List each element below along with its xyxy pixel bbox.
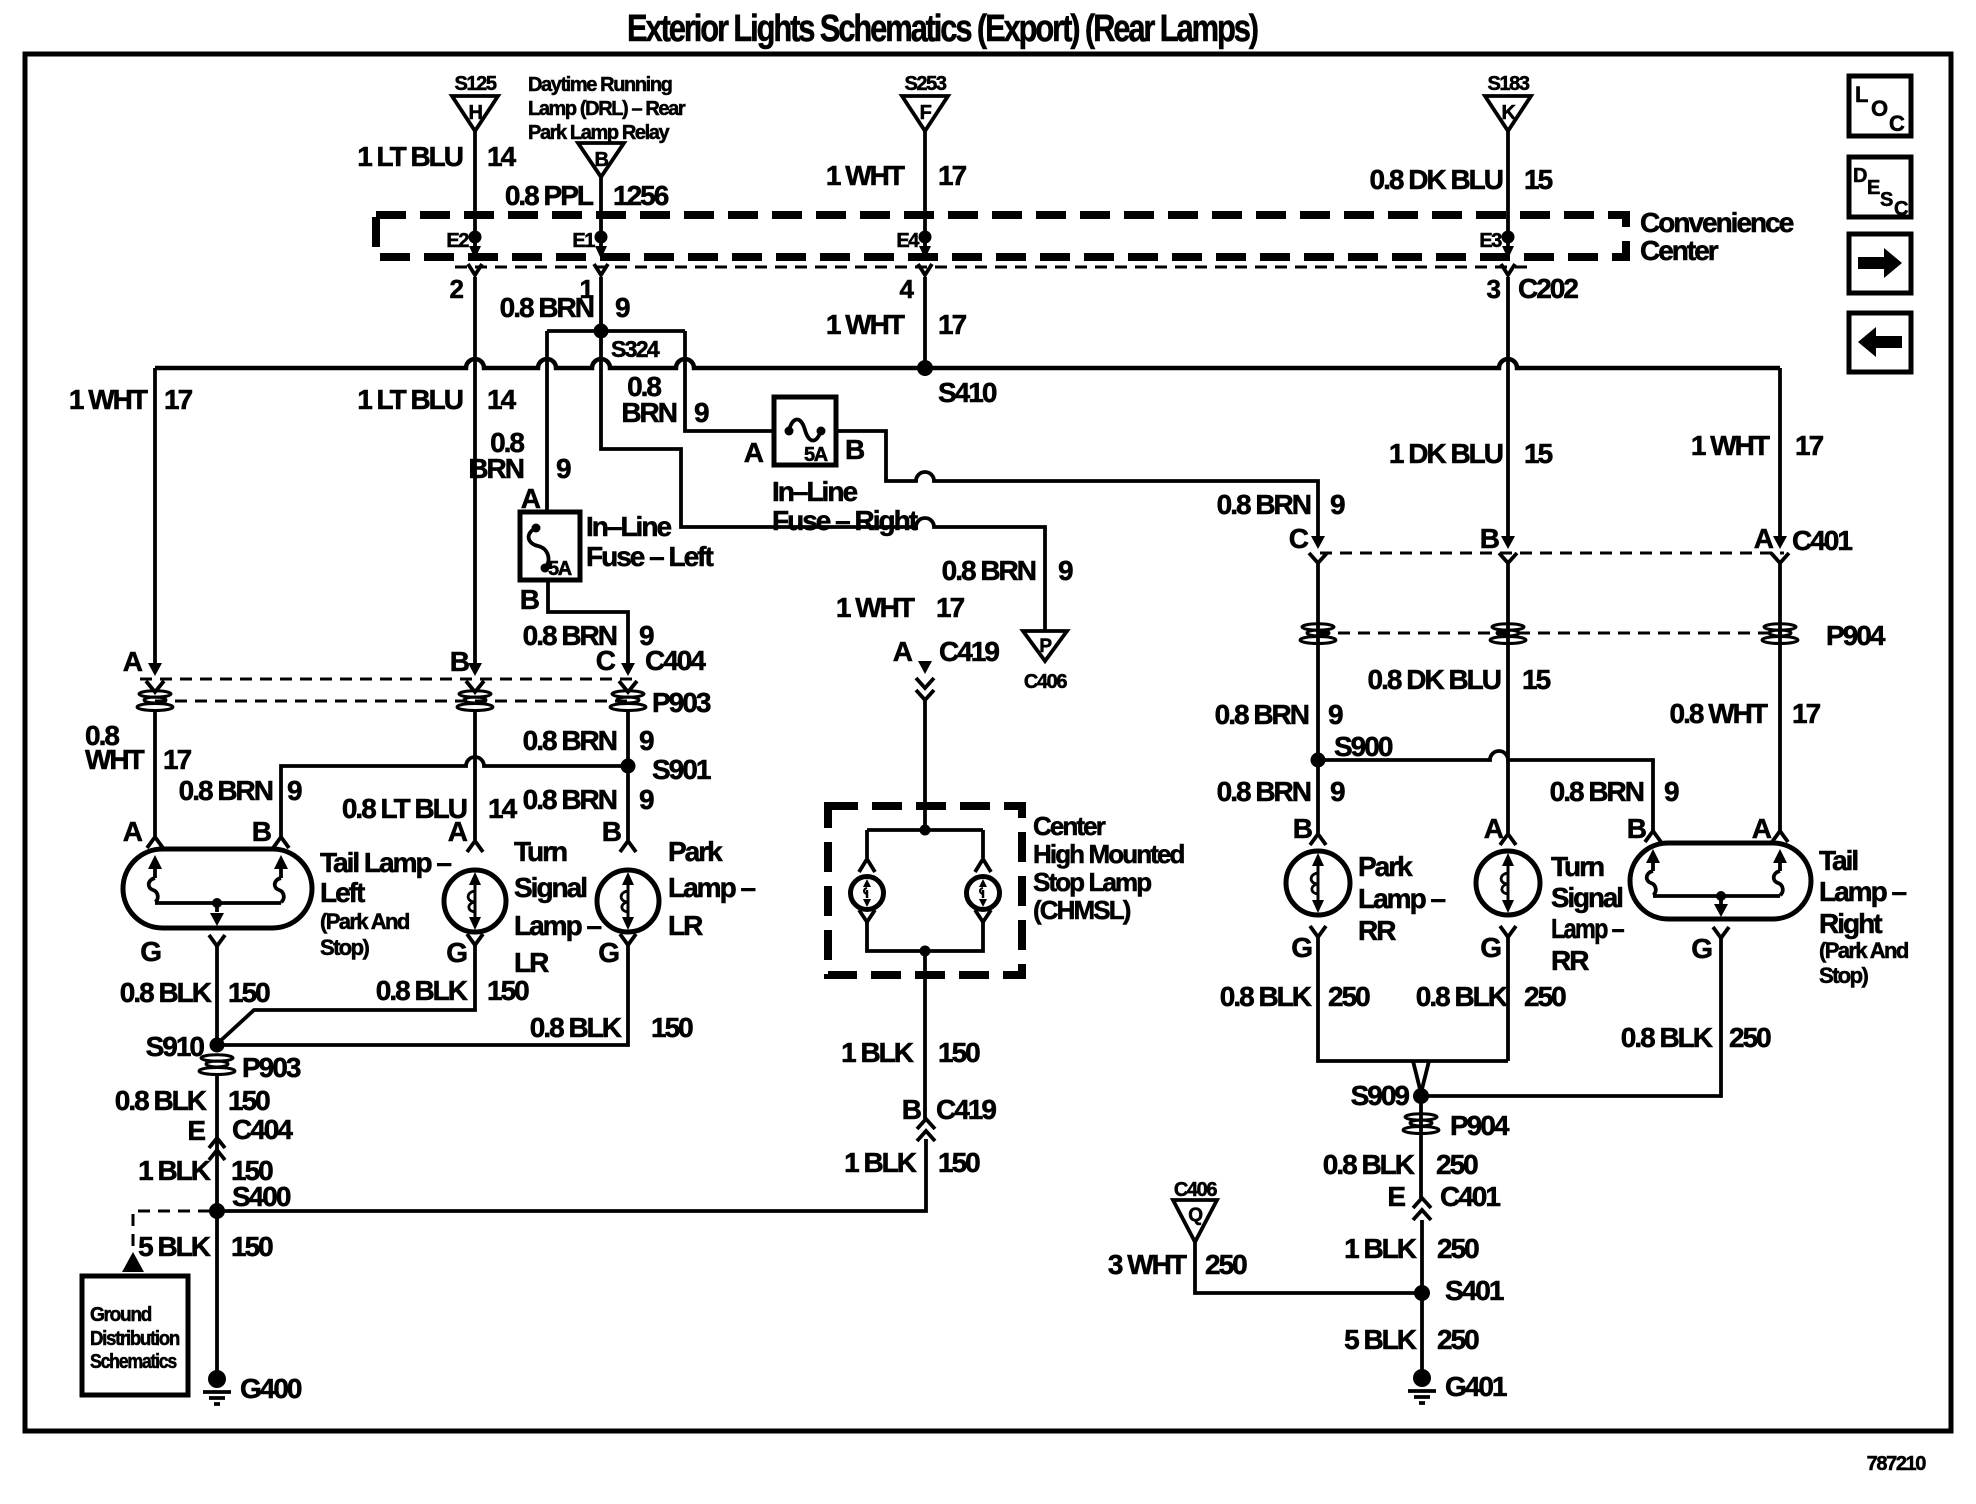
park lamp RR bulb xyxy=(1286,851,1350,915)
svg-text:C: C xyxy=(1289,523,1309,554)
grommet P903 dashed line xyxy=(155,700,628,703)
ground G400 xyxy=(203,1370,302,1404)
splice S900 xyxy=(1311,753,1326,768)
svg-text:0.8 BRN: 0.8 BRN xyxy=(523,725,617,756)
svg-text:WHT: WHT xyxy=(85,744,145,775)
svg-text:Signal: Signal xyxy=(514,872,586,903)
svg-text:3: 3 xyxy=(1486,274,1500,304)
grommet P904 C xyxy=(1300,624,1336,644)
wire bus left branch to C404 A xyxy=(153,368,157,668)
wire S253 to E4 xyxy=(923,131,927,237)
ground G401 xyxy=(1408,1369,1507,1403)
svg-text:1256: 1256 xyxy=(613,180,669,211)
wire C401 B down xyxy=(1506,563,1510,833)
wire pin4 to S410 xyxy=(923,277,927,368)
svg-text:S410: S410 xyxy=(938,377,997,408)
grommet P904 B xyxy=(1490,624,1526,644)
svg-text:9: 9 xyxy=(1330,776,1345,807)
svg-text:15: 15 xyxy=(1522,664,1551,695)
svg-text:Fuse – Right: Fuse – Right xyxy=(772,505,918,536)
svg-text:0.8 WHT: 0.8 WHT xyxy=(1670,698,1768,729)
svg-text:9: 9 xyxy=(694,397,709,428)
svg-text:G: G xyxy=(1691,933,1712,964)
svg-text:High Mounted: High Mounted xyxy=(1033,839,1185,869)
svg-text:17: 17 xyxy=(1792,698,1821,729)
svg-text:150: 150 xyxy=(938,1037,980,1068)
splice S901 xyxy=(621,759,636,774)
svg-text:250: 250 xyxy=(1729,1022,1771,1053)
svg-text:9: 9 xyxy=(639,784,654,815)
sidebar DESC box xyxy=(1849,157,1911,220)
connector C404 dashed line xyxy=(140,678,637,681)
svg-text:B: B xyxy=(520,584,539,615)
triangle connector C406 Q xyxy=(1173,1179,1217,1242)
svg-text:1 BLK: 1 BLK xyxy=(138,1155,211,1186)
svg-text:G: G xyxy=(1480,932,1501,963)
svg-text:0.8 BRN: 0.8 BRN xyxy=(179,775,273,806)
svg-text:G: G xyxy=(446,937,467,968)
svg-text:Turn: Turn xyxy=(1551,851,1604,882)
svg-text:1 LT BLU: 1 LT BLU xyxy=(357,141,463,172)
wire S901 to tail left B xyxy=(281,757,628,836)
svg-text:S253: S253 xyxy=(904,73,946,95)
svg-text:150: 150 xyxy=(938,1147,980,1178)
wire C401 E to S401 xyxy=(1420,1220,1424,1293)
svg-text:O: O xyxy=(1871,96,1888,121)
svg-text:0.8 BLK: 0.8 BLK xyxy=(530,1012,622,1043)
svg-text:1 WHT: 1 WHT xyxy=(826,160,905,191)
ground reference dashed branch xyxy=(133,1211,210,1254)
svg-text:15: 15 xyxy=(1524,164,1553,195)
svg-text:(Park And: (Park And xyxy=(320,909,409,934)
svg-text:A: A xyxy=(123,816,143,847)
svg-text:Left: Left xyxy=(320,877,365,908)
svg-text:0.8 PPL: 0.8 PPL xyxy=(505,180,594,211)
tail lamp right body xyxy=(1630,843,1811,919)
turn signal lamp RR pin G xyxy=(1500,926,1516,937)
svg-text:C401: C401 xyxy=(1440,1181,1500,1212)
svg-text:B: B xyxy=(1627,813,1646,844)
svg-text:17: 17 xyxy=(163,744,192,775)
wire P904 to C401 E xyxy=(1419,1096,1423,1198)
svg-text:14: 14 xyxy=(488,793,518,824)
svg-text:Tail: Tail xyxy=(1819,845,1857,876)
svg-text:150: 150 xyxy=(487,975,529,1006)
svg-text:RR: RR xyxy=(1358,915,1396,946)
svg-text:250: 250 xyxy=(1328,981,1370,1012)
wire P903 A to tail left A xyxy=(153,710,157,836)
svg-text:LR: LR xyxy=(668,910,703,941)
tail lamp right pin G xyxy=(1713,927,1729,938)
svg-text:0.8 BRN: 0.8 BRN xyxy=(1217,489,1311,520)
wire S324 branch rail xyxy=(547,329,685,333)
svg-text:C401: C401 xyxy=(1792,525,1852,556)
sidebar forward arrow box xyxy=(1849,234,1911,293)
svg-text:B: B xyxy=(602,816,621,847)
svg-text:9: 9 xyxy=(1058,555,1073,586)
svg-text:F: F xyxy=(920,102,932,124)
wire S324 to fuse left A xyxy=(545,331,549,512)
svg-text:Distribution: Distribution xyxy=(90,1328,179,1350)
wire turn RR G to S909 xyxy=(1506,937,1510,1061)
svg-text:C404: C404 xyxy=(645,645,706,676)
svg-text:BRN: BRN xyxy=(468,453,523,484)
off-page connector S125 (triangle H) xyxy=(452,73,498,131)
grommet P903 B xyxy=(457,691,493,711)
svg-text:Tail Lamp –: Tail Lamp – xyxy=(320,847,451,878)
svg-text:0.8 BLK: 0.8 BLK xyxy=(376,975,468,1006)
splice S410 xyxy=(917,360,933,376)
svg-text:0.8 DK BLU: 0.8 DK BLU xyxy=(1368,664,1501,695)
pin 1 of C202 xyxy=(594,264,608,275)
svg-text:Center: Center xyxy=(1033,811,1106,841)
svg-text:S400: S400 xyxy=(232,1181,291,1212)
svg-text:E: E xyxy=(1387,1181,1405,1212)
wire DRL to E1 xyxy=(599,177,603,237)
svg-text:S125: S125 xyxy=(454,73,496,95)
svg-text:1 WHT: 1 WHT xyxy=(69,384,148,415)
pin 4 of C202 xyxy=(918,264,932,275)
svg-text:Stop): Stop) xyxy=(1819,963,1868,988)
svg-text:(CHMSL): (CHMSL) xyxy=(1033,895,1131,925)
svg-text:Lamp (DRL) – Rear: Lamp (DRL) – Rear xyxy=(528,98,686,120)
svg-text:S: S xyxy=(1880,189,1893,211)
svg-text:250: 250 xyxy=(1437,1324,1479,1355)
off-page connector S183 (triangle K) xyxy=(1485,73,1531,131)
pin 3 of C202 xyxy=(1501,264,1515,275)
wire C419 A to CHMSL xyxy=(923,700,927,830)
svg-text:P903: P903 xyxy=(652,687,711,718)
grommet P903 C xyxy=(610,691,646,711)
wire tail right G to S909 xyxy=(1421,938,1721,1096)
convenience center dashed box xyxy=(376,215,1626,257)
svg-text:S900: S900 xyxy=(1334,731,1393,762)
svg-text:RR: RR xyxy=(1551,945,1589,976)
svg-text:250: 250 xyxy=(1437,1233,1479,1264)
grommet P903 (ground) xyxy=(199,1055,235,1075)
svg-text:A: A xyxy=(1752,813,1772,844)
svg-text:G400: G400 xyxy=(240,1373,302,1404)
svg-text:C: C xyxy=(1894,198,1908,220)
svg-text:1 BLK: 1 BLK xyxy=(1344,1233,1417,1264)
wire S183 to E3 xyxy=(1506,131,1510,237)
svg-text:Lamp –: Lamp – xyxy=(1358,883,1445,914)
svg-text:9: 9 xyxy=(615,292,630,323)
svg-text:17: 17 xyxy=(938,160,967,191)
svg-text:150: 150 xyxy=(231,1231,273,1262)
svg-text:5 BLK: 5 BLK xyxy=(1344,1324,1417,1355)
svg-text:Daytime Running: Daytime Running xyxy=(528,74,672,96)
svg-text:D: D xyxy=(1853,165,1867,187)
svg-text:1 DK BLU: 1 DK BLU xyxy=(1389,438,1503,469)
turn signal lamp RR bulb xyxy=(1476,851,1540,915)
svg-text:C202: C202 xyxy=(1518,273,1578,304)
svg-text:5 BLK: 5 BLK xyxy=(138,1231,211,1262)
svg-text:Lamp –: Lamp – xyxy=(1551,913,1624,944)
grommet P904 (ground) xyxy=(1403,1114,1439,1134)
svg-text:C406: C406 xyxy=(1174,1179,1217,1201)
grommet P903 A xyxy=(137,691,173,711)
svg-text:G401: G401 xyxy=(1445,1371,1507,1402)
svg-text:Q: Q xyxy=(1188,1205,1202,1226)
svg-text:LR: LR xyxy=(514,947,549,978)
wire S400 to C419 B xyxy=(217,1139,926,1211)
svg-text:17: 17 xyxy=(938,309,967,340)
svg-text:0.8 BRN: 0.8 BRN xyxy=(1215,699,1309,730)
wire tail left G to S910 xyxy=(215,946,219,1045)
wire S324 to fuse right A xyxy=(685,331,774,431)
svg-text:Park Lamp Relay: Park Lamp Relay xyxy=(528,122,670,144)
wire S125 to E2 xyxy=(473,131,477,237)
svg-text:Ground: Ground xyxy=(90,1304,151,1326)
svg-text:9: 9 xyxy=(1328,699,1343,730)
wire P903 B to turn LR A xyxy=(473,710,477,840)
svg-text:9: 9 xyxy=(639,725,654,756)
svg-text:S909: S909 xyxy=(1351,1080,1410,1111)
svg-text:P904: P904 xyxy=(1450,1110,1510,1141)
svg-text:S183: S183 xyxy=(1487,73,1529,95)
svg-text:0.8 BRN: 0.8 BRN xyxy=(523,784,617,815)
svg-text:Fuse – Left: Fuse – Left xyxy=(586,541,713,572)
svg-text:0.8 BLK: 0.8 BLK xyxy=(1323,1149,1415,1180)
svg-text:C419: C419 xyxy=(939,636,999,667)
wire C401 A down xyxy=(1778,563,1782,833)
svg-text:P903: P903 xyxy=(242,1052,301,1083)
svg-text:B: B xyxy=(594,149,608,171)
svg-text:9: 9 xyxy=(1330,489,1345,520)
svg-text:Park: Park xyxy=(668,836,723,867)
svg-text:Stop Lamp: Stop Lamp xyxy=(1033,867,1151,897)
tail lamp left pin G xyxy=(209,935,225,946)
in-line fuse right xyxy=(744,397,918,536)
wire pin2 to C404 B xyxy=(473,277,477,668)
wire S400 to G400 xyxy=(215,1211,219,1372)
svg-text:1 WHT: 1 WHT xyxy=(836,592,915,623)
svg-text:14: 14 xyxy=(487,141,517,172)
svg-text:250: 250 xyxy=(1524,981,1566,1012)
svg-text:17: 17 xyxy=(1795,430,1824,461)
svg-text:9: 9 xyxy=(1664,776,1679,807)
svg-text:S401: S401 xyxy=(1445,1275,1504,1306)
grommet P904 A xyxy=(1762,624,1798,644)
svg-text:5A: 5A xyxy=(804,444,828,466)
triangle connector C406 P xyxy=(1023,631,1067,693)
svg-text:B: B xyxy=(1480,523,1499,554)
svg-text:Schematics: Schematics xyxy=(90,1351,177,1373)
tail lamp left body xyxy=(123,849,312,928)
connector C202 dashed line xyxy=(455,266,1528,269)
svg-text:E1: E1 xyxy=(572,230,595,252)
wire turn LR G to S910 xyxy=(217,945,475,1044)
svg-text:0.8 BLK: 0.8 BLK xyxy=(115,1085,207,1116)
svg-text:0.8 BRN: 0.8 BRN xyxy=(1550,776,1644,807)
svg-text:0.8 DK BLU: 0.8 DK BLU xyxy=(1370,164,1503,195)
svg-text:0.8 BLK: 0.8 BLK xyxy=(1416,981,1508,1012)
svg-text:0.8 BRN: 0.8 BRN xyxy=(1217,776,1311,807)
svg-text:5A: 5A xyxy=(548,558,572,580)
svg-text:B: B xyxy=(902,1094,921,1125)
svg-text:2: 2 xyxy=(449,274,463,304)
wire park LR G to S910 xyxy=(217,945,628,1045)
svg-text:A: A xyxy=(744,437,764,468)
ground distribution schematics box xyxy=(82,1276,188,1395)
svg-text:A: A xyxy=(123,646,143,677)
turn signal lamp LR bulb xyxy=(444,870,506,932)
svg-text:Lamp –: Lamp – xyxy=(1819,876,1906,907)
park lamp RR pin G xyxy=(1310,926,1326,937)
svg-text:250: 250 xyxy=(1205,1249,1247,1280)
svg-text:0.8 BRN: 0.8 BRN xyxy=(942,555,1036,586)
svg-text:B: B xyxy=(450,646,469,677)
svg-text:250: 250 xyxy=(1436,1149,1478,1180)
wire park RR G to S909 xyxy=(1318,937,1508,1061)
CHMSL lamp internals xyxy=(851,825,1000,957)
pin 2 of C202 xyxy=(468,264,482,275)
svg-text:K: K xyxy=(1501,102,1516,124)
svg-text:C419: C419 xyxy=(936,1094,996,1125)
svg-text:E4: E4 xyxy=(896,230,920,252)
wire S900 to park RR B xyxy=(1316,760,1320,833)
svg-text:150: 150 xyxy=(228,977,270,1008)
svg-text:17: 17 xyxy=(164,384,193,415)
svg-text:Center: Center xyxy=(1640,235,1719,266)
sidebar LOC box xyxy=(1849,76,1911,136)
svg-text:H: H xyxy=(468,102,482,124)
svg-text:17: 17 xyxy=(936,592,965,623)
svg-text:In–Line: In–Line xyxy=(586,511,671,542)
svg-text:Stop): Stop) xyxy=(320,935,369,960)
svg-text:Exterior Lights Schematics (Ex: Exterior Lights Schematics (Export) (Rea… xyxy=(627,8,1258,50)
grommet P904 dashed line xyxy=(1318,632,1782,635)
sidebar back arrow box xyxy=(1849,313,1911,372)
CHMSL dashed box xyxy=(828,806,1022,975)
svg-text:Park: Park xyxy=(1358,851,1413,882)
wire P903 C to S901 xyxy=(626,710,630,766)
wire S900 to tail right B xyxy=(1318,751,1653,833)
svg-text:C: C xyxy=(1889,111,1905,136)
svg-text:BRN: BRN xyxy=(621,397,676,428)
off-page connector DRL relay (triangle B) xyxy=(528,74,686,177)
svg-text:P904: P904 xyxy=(1826,620,1886,651)
svg-text:In–Line: In–Line xyxy=(772,476,857,507)
svg-text:9: 9 xyxy=(556,453,571,484)
svg-text:150: 150 xyxy=(228,1085,270,1116)
svg-text:1 BLK: 1 BLK xyxy=(841,1037,914,1068)
svg-text:G: G xyxy=(598,937,619,968)
svg-text:1 WHT: 1 WHT xyxy=(826,309,905,340)
svg-text:9: 9 xyxy=(287,775,302,806)
svg-text:Lamp –: Lamp – xyxy=(668,872,755,903)
svg-text:1 WHT: 1 WHT xyxy=(1691,430,1770,461)
svg-text:E: E xyxy=(187,1115,205,1146)
in-line fuse left xyxy=(520,483,714,615)
svg-text:S901: S901 xyxy=(652,754,711,785)
svg-text:P: P xyxy=(1039,636,1052,657)
svg-text:0.8 BRN: 0.8 BRN xyxy=(500,292,594,323)
svg-text:A: A xyxy=(1484,813,1504,844)
svg-text:L: L xyxy=(1855,82,1868,107)
wire C406 Q to S401 xyxy=(1195,1242,1422,1293)
svg-text:150: 150 xyxy=(651,1012,693,1043)
svg-text:0.8 BLK: 0.8 BLK xyxy=(120,977,212,1008)
splice S324 xyxy=(594,324,609,339)
svg-text:15: 15 xyxy=(1524,438,1553,469)
turn signal lamp LR pin G xyxy=(467,934,483,945)
splice S909 xyxy=(1413,1088,1429,1104)
wire pin1 to S324 xyxy=(599,277,603,331)
svg-text:1 LT BLU: 1 LT BLU xyxy=(357,384,463,415)
park lamp LR pin G xyxy=(620,934,636,945)
svg-text:A: A xyxy=(1754,523,1774,554)
svg-text:G: G xyxy=(140,936,161,967)
svg-text:B: B xyxy=(845,434,864,465)
wire fuse right B to C401 C xyxy=(836,431,1318,543)
main bus wire with hops xyxy=(155,359,1780,368)
wire fuse left B to C404 C xyxy=(548,580,628,668)
svg-text:A: A xyxy=(448,816,468,847)
svg-text:0.8 BLK: 0.8 BLK xyxy=(1621,1022,1713,1053)
svg-text:0.8 BLK: 0.8 BLK xyxy=(1220,981,1312,1012)
splice S401 xyxy=(1414,1285,1430,1301)
wire S901 to park LR B xyxy=(626,766,630,840)
wire P903 to C404 E xyxy=(215,1076,219,1211)
svg-text:Lamp –: Lamp – xyxy=(514,910,601,941)
svg-text:E: E xyxy=(1867,177,1880,199)
svg-text:787210: 787210 xyxy=(1867,1453,1927,1475)
svg-text:C406: C406 xyxy=(1024,671,1067,693)
svg-text:C: C xyxy=(596,645,616,676)
connector C401 dashed line xyxy=(1320,552,1784,555)
wire C401 C to S900 xyxy=(1316,563,1320,760)
svg-text:(Park And: (Park And xyxy=(1819,938,1908,963)
wire pin3 to C401 B xyxy=(1506,277,1510,543)
svg-text:1 BLK: 1 BLK xyxy=(844,1147,917,1178)
svg-text:3 WHT: 3 WHT xyxy=(1108,1249,1187,1280)
wire CHMSL to C419 B xyxy=(923,951,927,1119)
wire bus right branch to C401 A xyxy=(1778,368,1782,543)
wire S324 to C406 P xyxy=(601,331,1045,631)
park lamp LR bulb xyxy=(597,870,659,932)
svg-text:Right: Right xyxy=(1819,908,1882,939)
svg-text:A: A xyxy=(521,483,541,514)
svg-text:Signal: Signal xyxy=(1551,882,1622,913)
svg-text:E2: E2 xyxy=(446,230,469,252)
svg-text:C404: C404 xyxy=(232,1114,293,1145)
svg-text:Convenience: Convenience xyxy=(1640,207,1794,238)
svg-text:E3: E3 xyxy=(1479,230,1502,252)
off-page connector S253 (triangle F) xyxy=(902,73,948,131)
svg-text:A: A xyxy=(893,636,913,667)
svg-text:14: 14 xyxy=(487,384,517,415)
svg-text:S324: S324 xyxy=(611,336,660,362)
splice S910 xyxy=(210,1038,225,1053)
svg-text:S910: S910 xyxy=(146,1031,205,1062)
svg-text:B: B xyxy=(252,816,271,847)
svg-text:G: G xyxy=(1291,932,1312,963)
wire S401 to G401 xyxy=(1420,1293,1424,1371)
svg-text:B: B xyxy=(1293,813,1312,844)
svg-text:Turn: Turn xyxy=(514,836,567,867)
